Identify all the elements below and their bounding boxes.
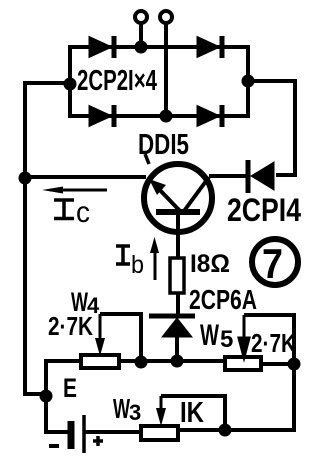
potentiometer W3 [141, 426, 178, 440]
label minus [49, 444, 59, 448]
svg-text:I8Ω: I8Ω [190, 250, 230, 278]
wire bridge left side [68, 45, 72, 118]
label 2CP6A [189, 284, 257, 315]
W3 wiper arrow [156, 396, 166, 426]
terminal T2 [160, 11, 172, 23]
label 2CP14 [227, 192, 301, 228]
potentiometer W5 [225, 357, 261, 370]
resistor 18ohm [170, 258, 184, 293]
wire bridge top rail [70, 45, 248, 49]
wire battery positive lead [84, 430, 141, 434]
transistor DD15 [144, 164, 212, 258]
node W5 right junction [288, 358, 301, 371]
wire bottom rail left (W4 left lead) [46, 361, 81, 394]
diode D3 bottom-left (2CP21) [89, 105, 114, 127]
wire bridge left to left rail [25, 81, 70, 85]
node left rail emitter junction [19, 172, 32, 185]
figure number 7 [252, 239, 298, 287]
wire W5 right lead [261, 362, 294, 366]
label Ib [116, 246, 144, 279]
wire W5 wiper loop [244, 315, 294, 364]
node battery top junction [40, 390, 53, 403]
W5 wiper arrow [239, 315, 249, 357]
wire resistor to diode [176, 292, 180, 316]
current arrow Ib [150, 237, 159, 280]
terminal T1 [135, 11, 147, 23]
diode D4 bottom-right (2CP21) [197, 105, 222, 127]
node W3 wiper junction [219, 424, 232, 437]
wire bridge bottom rail [70, 114, 248, 118]
wire collector to 2CP14 [209, 174, 250, 178]
potentiometer W4 [81, 355, 119, 368]
label plus [93, 436, 103, 446]
wire T2 to bottom rail [164, 23, 168, 116]
wire left rail down [25, 81, 46, 394]
svg-text:2·7K: 2·7K [48, 311, 93, 341]
label W3 [113, 393, 141, 425]
svg-text:2CP6A: 2CP6A [189, 284, 257, 315]
svg-text:b: b [131, 251, 144, 279]
node bottom rail junction [160, 110, 173, 123]
svg-text:W: W [200, 319, 219, 352]
svg-text:2·7K: 2·7K [251, 328, 296, 358]
label W4 [71, 287, 100, 318]
wire 2CP6A to bottom rail [175, 337, 179, 361]
label DD15 [138, 129, 189, 164]
wire right side down to bottom [178, 364, 294, 430]
label 2.7K right [251, 328, 296, 358]
node bridge right junction [242, 75, 255, 88]
node bridge left junction [64, 78, 77, 91]
diode D1 top-left (2CP21) [89, 36, 114, 58]
wire right rail down to 2CP14 [276, 79, 295, 175]
label 2CP21x4 [77, 65, 157, 97]
label Ic [54, 196, 90, 229]
label 2.7K left [48, 311, 93, 341]
diode 2CP14 [248, 160, 274, 193]
diode D2 top-right (2CP21) [197, 36, 222, 58]
wire bridge right side [246, 45, 250, 118]
svg-text:2CP2I×4: 2CP2I×4 [77, 65, 157, 97]
svg-text:c: c [76, 196, 90, 229]
label E [63, 373, 77, 403]
wire emitter to transistor [25, 175, 146, 179]
battery E [71, 415, 84, 453]
svg-text:E: E [63, 373, 77, 403]
label W5 [200, 319, 233, 353]
wire battery negative lead [46, 396, 68, 432]
wire T1 to top rail [139, 23, 143, 47]
node bottom rail diode junction [171, 355, 184, 368]
svg-text:2CPI4: 2CPI4 [227, 192, 301, 228]
label 1K [180, 397, 204, 429]
node top rail junction [135, 41, 148, 54]
diode 2CP6A [149, 316, 195, 337]
wire W3 wiper loop [161, 396, 225, 430]
wire bottom rail middle [119, 359, 225, 363]
W4 wiper arrow [95, 314, 105, 356]
svg-text:W: W [113, 393, 130, 424]
svg-text:5: 5 [220, 326, 233, 353]
node W4 wiper junction [135, 356, 148, 369]
svg-text:IK: IK [180, 397, 204, 429]
wire bridge right to right rail [248, 79, 295, 83]
svg-text:7: 7 [262, 240, 283, 287]
current arrow Ic [42, 187, 107, 194]
svg-text:3: 3 [129, 400, 141, 425]
wire W4 wiper loop [100, 314, 141, 361]
label 18ohm [190, 250, 230, 278]
